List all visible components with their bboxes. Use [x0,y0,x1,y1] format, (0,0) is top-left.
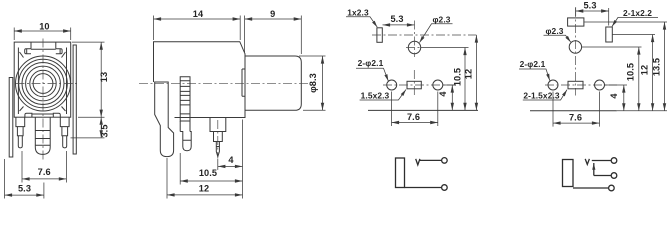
top hole horizontal centerline [406,47,421,49]
connector ring outer [16,56,71,111]
svg-text:7.6: 7.6 [38,167,51,177]
dim 14 line [154,18,241,20]
right ground tab [73,45,76,154]
svg-text:φ2.3: φ2.3 [432,14,450,24]
dim 4 top ext [444,84,456,86]
dim 12 line [475,35,477,110]
mid hole right [433,80,443,90]
connector ring 2 [19,59,68,108]
ext leg2 center [179,153,181,185]
ext line barrel end top [300,16,302,55]
bottom tab right [53,113,60,117]
svg-text:10.5: 10.5 [626,63,636,81]
mid row centerline [545,84,617,86]
dim 4 line [451,85,453,110]
dim phi8.3 line [322,56,324,110]
svg-text:9: 9 [270,9,275,19]
needle pin centerline [217,120,219,158]
svg-text:10: 10 [39,21,49,31]
corner diagonal bottom-right [62,107,66,112]
svg-text:2-φ2.1: 2-φ2.1 [358,58,384,68]
dim 7.6 ext right [437,92,439,127]
dim 7.6 ext left [391,92,393,127]
dim 4 top ext [605,84,627,86]
ext line body bottom right [78,116,105,118]
svg-text:3.5: 3.5 [100,124,110,137]
top tab right [56,42,62,54]
svg-text:5.3: 5.3 [390,14,403,24]
svg-text:5.3: 5.3 [18,184,31,194]
dim 7.6 line [22,178,66,180]
corner diagonal top-right [62,52,66,58]
svg-text:4: 4 [438,91,448,97]
tip contact V [585,159,589,165]
top plate line between tabs [31,48,56,50]
dim 12 line [167,194,243,196]
dim 13.5 line [664,22,666,111]
shield terminal [609,185,615,191]
dim 10 line [14,30,70,32]
dim 7.6 ext left [552,92,554,127]
body inner side lines [17,48,19,115]
svg-text:12: 12 [199,183,209,193]
svg-text:φ2.3: φ2.3 [545,26,563,36]
switch line to middle terminal [594,175,611,177]
svg-text:10.5: 10.5 [452,68,462,86]
leader 2-phi2.1 [519,69,550,81]
ext leg1 center [166,158,168,199]
horizontal centerline [16,83,78,85]
dim 3.5 line [100,117,102,138]
tip line [592,160,611,162]
dim 7.6 ext right [599,92,601,127]
pad centerline / dim12 top ext [372,34,476,36]
svg-text:2-1x2.2: 2-1x2.2 [623,8,652,18]
ext barrel top right [299,55,326,57]
ext barrel bottom right [303,109,326,111]
body outline [14,42,70,117]
mid hole left [387,80,397,90]
leader 2-1x2.2 [612,17,658,26]
leader 2-phi2.1 [356,68,388,81]
body outline [154,42,246,118]
svg-text:13.5: 13.5 [651,58,661,76]
leader 1x2.3 [346,17,377,27]
svg-text:14: 14 [193,9,204,19]
connector center hole [33,74,53,94]
bottom ext continuation [617,110,667,112]
vertical centerline [575,8,577,96]
connector ring 5 [30,70,56,96]
ext needle [217,159,219,170]
svg-text:4: 4 [228,155,234,165]
bottom reference line [368,109,478,111]
right pin [60,117,69,148]
jack body rect [396,158,405,188]
dim 7.6 line [553,122,600,124]
vpad ext top [608,8,610,26]
svg-text:7.6: 7.6 [407,112,420,122]
svg-text:13: 13 [99,72,109,82]
svg-text:1x2.3: 1x2.3 [347,7,369,17]
corner diagonal top-left [20,52,24,58]
ext line body right top [239,16,241,41]
dim 9 line [245,18,302,20]
shield terminal [442,185,448,191]
svg-text:4: 4 [609,93,619,99]
dim 5.3 line [576,10,609,12]
svg-text:7.6: 7.6 [569,113,582,123]
svg-text:12: 12 [464,69,474,79]
shield line [573,187,608,189]
serrated contact stack [180,77,190,121]
left ground tab [9,78,13,158]
mid pad vertical centerline [413,70,415,96]
dim 4 line [623,85,625,111]
dim 7.6 ext right [65,151,67,183]
switch contact line with arrow [593,163,595,176]
ext 12 top [613,34,656,36]
jack body rect [563,160,574,187]
svg-text:2-φ2.1: 2-φ2.1 [520,59,546,69]
svg-text:2-1.5x2.3: 2-1.5x2.3 [523,90,560,100]
dim 5.3 ext left [4,159,6,199]
dim 13 line [100,42,102,117]
dim 10.5 top ext [421,47,469,49]
dim 10.5 line [464,48,466,111]
top hole phi2.3 [569,41,581,53]
tip line [420,159,442,161]
pad 1x2.3 [377,28,382,43]
dim 7.6 line [392,122,438,124]
dim 4 line [218,165,243,167]
mid hole right [595,80,605,90]
connector ring 3 [22,63,64,105]
connector ring 4 [26,66,61,101]
svg-text:φ8.3: φ8.3 [308,73,318,93]
barrel base detail [242,69,245,96]
tip contact V [416,159,420,165]
top pad [568,18,584,26]
top tab left [25,42,31,54]
center pin [35,117,50,154]
leader phi2.3 [420,24,453,43]
top hole vertical centerline [414,21,416,58]
ext 13.5 top [584,21,667,23]
side ground tab with front leg 1 (bent, round bottom) [155,82,174,157]
ext line pin shoulder right [71,137,105,139]
leader 2-1.5x2.3 [523,90,567,100]
mid pad 1.5x2.3 [407,81,421,89]
ext 10.5 top [582,46,642,48]
dim 5.3 line [5,194,44,196]
dim 10.5 line [638,47,640,111]
center needle pin [210,118,226,157]
dim 5.3 ext right (center line continues) [43,183,45,199]
mid pad 1.5x2.3 [568,81,583,89]
horizontal centerline [139,83,310,85]
leader phi2.3 [544,35,571,42]
ext line body left top [153,16,155,41]
leader 1.5x2.3 [360,90,406,101]
ext right edge [242,120,244,199]
vertical centerline [42,39,44,162]
top pad ext [575,7,577,17]
mid row horizontal centerline [383,84,456,86]
svg-text:10.5: 10.5 [199,168,217,178]
ext line body top right [72,41,105,43]
barrel outline [245,56,301,110]
bottom tab left [25,113,32,117]
top hole phi2.3 [408,41,420,53]
dim 12 line [652,35,654,111]
mid hole left [548,80,558,90]
front leg 2 (round bottom) [180,121,191,151]
left pin [16,117,25,148]
dim 5.3 line [383,24,415,26]
dim 10 ext lines [13,28,15,41]
svg-text:1.5x2.3: 1.5x2.3 [361,90,390,100]
ext line barrel base top [244,16,246,53]
vertical pad 1x2.2 [606,27,613,42]
dim 7.6 ext left [21,151,23,183]
shield line [405,187,442,189]
dim 10.5 line [180,180,242,182]
tip terminal [611,158,617,164]
bottom reference line [530,110,617,112]
corner diagonal bottom-left [20,107,24,112]
switch terminal [611,173,617,179]
svg-text:12: 12 [639,65,649,75]
bottom plate line between tabs [32,113,53,115]
tip terminal [442,158,448,164]
svg-text:5.3: 5.3 [583,1,596,11]
